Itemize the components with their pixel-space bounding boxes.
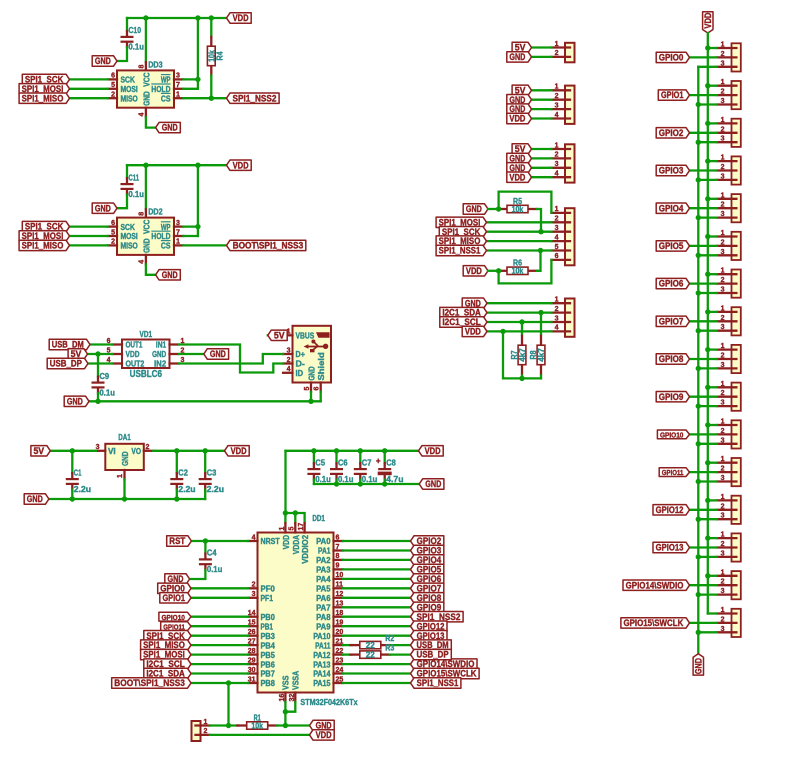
svg-text:2: 2 xyxy=(555,93,559,100)
svg-text:PA12: PA12 xyxy=(313,651,331,660)
svg-text:1: 1 xyxy=(721,343,725,350)
svg-text:VO: VO xyxy=(131,447,141,456)
svg-text:PF0: PF0 xyxy=(261,585,276,594)
svg-text:6: 6 xyxy=(111,73,115,80)
svg-text:DD1: DD1 xyxy=(312,514,325,523)
svg-text:3: 3 xyxy=(555,102,559,109)
svg-text:1: 1 xyxy=(279,527,286,531)
svg-text:0.1u: 0.1u xyxy=(129,43,144,52)
svg-text:22: 22 xyxy=(366,650,376,659)
svg-text:2: 2 xyxy=(721,579,725,586)
svg-text:R8: R8 xyxy=(529,350,538,359)
svg-text:3: 3 xyxy=(555,161,559,168)
svg-text:GND: GND xyxy=(95,203,111,213)
svg-text:VBUS: VBUS xyxy=(296,330,315,340)
svg-text:0.1u: 0.1u xyxy=(315,475,330,484)
svg-text:GND: GND xyxy=(162,123,178,133)
svg-text:PA6: PA6 xyxy=(316,594,331,603)
svg-text:SPI1_NSS1: SPI1_NSS1 xyxy=(439,246,481,256)
svg-text:VDD: VDD xyxy=(465,327,481,337)
svg-text:GND: GND xyxy=(142,238,151,252)
svg-text:0.1u: 0.1u xyxy=(362,475,377,484)
svg-text:PA4: PA4 xyxy=(316,575,331,584)
svg-text:3: 3 xyxy=(721,626,725,633)
svg-text:ID: ID xyxy=(296,368,304,378)
svg-text:PA8: PA8 xyxy=(316,613,331,622)
svg-text:PA7: PA7 xyxy=(316,604,331,613)
svg-text:6: 6 xyxy=(314,387,321,391)
svg-text:9: 9 xyxy=(336,563,340,570)
svg-text:GND: GND xyxy=(152,349,166,359)
svg-text:3: 3 xyxy=(555,315,559,322)
svg-text:1: 1 xyxy=(721,381,725,388)
svg-text:1: 1 xyxy=(721,230,725,237)
svg-text:32: 32 xyxy=(289,694,296,702)
svg-text:4: 4 xyxy=(139,113,146,117)
svg-text:2: 2 xyxy=(252,582,256,589)
svg-text:VD1: VD1 xyxy=(140,330,153,339)
svg-text:USB_DP: USB_DP xyxy=(417,650,449,660)
svg-text:GND: GND xyxy=(121,451,130,465)
svg-text:VDD: VDD xyxy=(466,266,482,276)
svg-text:GPIO0: GPIO0 xyxy=(659,53,684,63)
svg-text:C11: C11 xyxy=(129,173,140,182)
svg-text:3: 3 xyxy=(721,400,725,407)
svg-text:2: 2 xyxy=(721,277,725,284)
svg-text:3: 3 xyxy=(176,220,180,227)
svg-text:0.1u: 0.1u xyxy=(338,475,353,484)
svg-text:PB6: PB6 xyxy=(261,660,276,669)
svg-text:PA1: PA1 xyxy=(318,547,331,556)
svg-text:8: 8 xyxy=(139,65,146,69)
svg-text:C2: C2 xyxy=(178,468,188,477)
svg-text:DD2: DD2 xyxy=(148,208,163,217)
svg-text:VDD: VDD xyxy=(509,114,525,124)
svg-text:GND: GND xyxy=(27,494,43,504)
svg-text:10k: 10k xyxy=(251,721,263,730)
svg-text:Shield: Shield xyxy=(316,352,326,380)
svg-text:4k7: 4k7 xyxy=(537,348,546,362)
svg-text:PA9: PA9 xyxy=(316,622,331,631)
svg-text:SCK: SCK xyxy=(121,223,135,232)
svg-text:USBLC6: USBLC6 xyxy=(130,369,163,380)
svg-text:3: 3 xyxy=(721,437,725,444)
svg-text:4: 4 xyxy=(252,534,256,541)
svg-text:4.7u: 4.7u xyxy=(386,475,403,484)
svg-text:NRST: NRST xyxy=(261,537,280,546)
svg-text:GND: GND xyxy=(67,396,83,406)
svg-text:GPIO11: GPIO11 xyxy=(662,468,684,477)
svg-text:17: 17 xyxy=(298,523,305,531)
svg-text:4: 4 xyxy=(555,112,559,119)
svg-text:VCC: VCC xyxy=(142,72,151,86)
svg-text:SPI1_MISO: SPI1_MISO xyxy=(22,241,64,251)
svg-text:VDD: VDD xyxy=(282,535,291,549)
svg-text:R7: R7 xyxy=(510,350,519,359)
svg-text:PA15: PA15 xyxy=(313,679,331,688)
svg-text:6: 6 xyxy=(555,253,559,260)
svg-text:1: 1 xyxy=(176,239,180,246)
svg-text:22: 22 xyxy=(366,641,376,650)
svg-text:2: 2 xyxy=(204,728,208,735)
svg-text:VDD: VDD xyxy=(316,730,332,740)
svg-text:2: 2 xyxy=(555,306,559,313)
svg-text:C6: C6 xyxy=(338,458,348,467)
svg-text:4: 4 xyxy=(555,171,559,178)
svg-text:WP: WP xyxy=(161,76,171,85)
svg-text:2: 2 xyxy=(721,353,725,360)
svg-text:3: 3 xyxy=(721,249,725,256)
svg-text:1: 1 xyxy=(721,305,725,312)
svg-text:PA3: PA3 xyxy=(316,566,331,575)
svg-text:6: 6 xyxy=(336,534,340,541)
svg-text:DD3: DD3 xyxy=(148,61,163,70)
svg-text:MISO: MISO xyxy=(121,94,139,103)
svg-text:4: 4 xyxy=(555,234,559,241)
svg-text:5: 5 xyxy=(111,82,115,89)
svg-text:VDD: VDD xyxy=(509,172,525,182)
svg-text:HOLD: HOLD xyxy=(151,85,170,94)
svg-text:7: 7 xyxy=(176,229,180,236)
svg-text:3: 3 xyxy=(721,588,725,595)
svg-text:PB4: PB4 xyxy=(261,641,276,650)
svg-text:1: 1 xyxy=(721,419,725,426)
svg-text:BOOT\SPI1_NSS3: BOOT\SPI1_NSS3 xyxy=(114,678,185,688)
svg-text:6: 6 xyxy=(111,220,115,227)
svg-text:PA5: PA5 xyxy=(316,585,331,594)
svg-text:3: 3 xyxy=(96,444,100,451)
svg-text:1: 1 xyxy=(721,117,725,124)
svg-text:16: 16 xyxy=(279,694,286,702)
svg-text:2: 2 xyxy=(721,503,725,510)
svg-text:GPIO4: GPIO4 xyxy=(659,203,684,213)
svg-text:1: 1 xyxy=(721,532,725,539)
svg-text:PA10: PA10 xyxy=(313,632,331,641)
svg-text:GPIO14\SWDIO: GPIO14\SWDIO xyxy=(626,580,684,590)
svg-text:GND: GND xyxy=(466,204,482,214)
svg-text:4: 4 xyxy=(287,366,291,373)
svg-text:GPIO15\SWCLK: GPIO15\SWCLK xyxy=(623,618,683,628)
svg-text:PA14: PA14 xyxy=(313,670,331,679)
svg-text:3: 3 xyxy=(721,287,725,294)
svg-text:GPIO2: GPIO2 xyxy=(659,128,684,138)
svg-text:5: 5 xyxy=(289,527,296,531)
svg-text:3: 3 xyxy=(721,362,725,369)
svg-text:GPIO1: GPIO1 xyxy=(661,90,684,100)
svg-text:2: 2 xyxy=(721,202,725,209)
svg-text:5V: 5V xyxy=(274,330,285,340)
svg-text:PA0: PA0 xyxy=(316,537,331,546)
svg-text:GPIO5: GPIO5 xyxy=(659,241,684,251)
svg-text:3: 3 xyxy=(252,591,256,598)
svg-text:VCC: VCC xyxy=(142,220,151,234)
svg-text:3: 3 xyxy=(287,347,291,354)
svg-text:8: 8 xyxy=(139,212,146,216)
svg-text:SPI1_NSS2: SPI1_NSS2 xyxy=(233,93,277,103)
svg-text:GPIO12: GPIO12 xyxy=(656,505,684,515)
svg-text:0.1u: 0.1u xyxy=(207,565,222,574)
svg-text:RST: RST xyxy=(169,536,186,546)
svg-text:PF1: PF1 xyxy=(261,594,274,603)
svg-text:PB3: PB3 xyxy=(261,632,276,641)
svg-text:OUT1: OUT1 xyxy=(126,340,143,350)
svg-text:USB_DP: USB_DP xyxy=(50,359,82,369)
svg-text:2: 2 xyxy=(721,164,725,171)
svg-text:2: 2 xyxy=(721,466,725,473)
svg-text:MOSI: MOSI xyxy=(121,85,138,94)
svg-text:2: 2 xyxy=(111,92,115,99)
svg-text:GPIO10: GPIO10 xyxy=(162,613,185,622)
svg-text:4: 4 xyxy=(555,325,559,332)
svg-text:GPIO13: GPIO13 xyxy=(656,543,684,553)
svg-text:10k: 10k xyxy=(512,267,524,276)
svg-text:C4: C4 xyxy=(207,549,217,558)
svg-text:1: 1 xyxy=(721,268,725,275)
svg-text:PB5: PB5 xyxy=(261,651,276,660)
svg-text:2: 2 xyxy=(721,541,725,548)
svg-text:GND: GND xyxy=(162,270,178,280)
svg-text:GND: GND xyxy=(142,91,151,105)
svg-text:GPIO8: GPIO8 xyxy=(659,354,684,364)
svg-text:2.2u: 2.2u xyxy=(207,485,224,494)
svg-text:SCK: SCK xyxy=(121,76,135,85)
svg-text:1: 1 xyxy=(555,41,559,48)
svg-text:1: 1 xyxy=(721,79,725,86)
svg-text:2: 2 xyxy=(555,152,559,159)
svg-text:2: 2 xyxy=(146,444,150,451)
svg-text:VDDIO2: VDDIO2 xyxy=(301,535,310,564)
svg-text:OUT2: OUT2 xyxy=(126,359,145,369)
svg-text:MISO: MISO xyxy=(121,242,139,251)
svg-text:3: 3 xyxy=(176,73,180,80)
svg-text:PB7: PB7 xyxy=(261,670,276,679)
svg-text:VSS: VSS xyxy=(282,675,291,690)
svg-text:DA1: DA1 xyxy=(118,433,131,442)
svg-text:VDD: VDD xyxy=(233,13,249,23)
svg-text:5: 5 xyxy=(555,244,559,251)
svg-text:5: 5 xyxy=(304,387,311,391)
svg-text:VDD: VDD xyxy=(425,446,441,456)
svg-text:GPIO6: GPIO6 xyxy=(659,279,684,289)
svg-text:CS: CS xyxy=(161,94,171,103)
svg-text:GPIO7: GPIO7 xyxy=(659,316,684,326)
svg-text:2: 2 xyxy=(721,89,725,96)
svg-text:R2: R2 xyxy=(385,634,394,643)
svg-text:R1: R1 xyxy=(254,713,262,722)
svg-text:2: 2 xyxy=(721,315,725,322)
svg-text:VDD: VDD xyxy=(233,160,249,170)
svg-text:8: 8 xyxy=(336,553,340,560)
svg-text:IN2: IN2 xyxy=(154,359,166,369)
svg-text:1: 1 xyxy=(204,719,208,726)
svg-text:+: + xyxy=(376,457,381,466)
svg-text:2: 2 xyxy=(721,616,725,623)
svg-text:C10: C10 xyxy=(129,26,142,35)
svg-text:GND: GND xyxy=(95,56,111,66)
svg-text:2: 2 xyxy=(721,239,725,246)
svg-text:1: 1 xyxy=(555,206,559,213)
svg-text:1: 1 xyxy=(721,42,725,49)
svg-text:R5: R5 xyxy=(513,197,522,206)
svg-text:3: 3 xyxy=(555,225,559,232)
svg-text:SPI1_MISO: SPI1_MISO xyxy=(22,93,64,103)
svg-text:GPIO3: GPIO3 xyxy=(659,166,684,176)
svg-text:3: 3 xyxy=(721,173,725,180)
svg-text:1: 1 xyxy=(721,155,725,162)
svg-text:2: 2 xyxy=(721,51,725,58)
svg-text:GND: GND xyxy=(210,349,226,359)
svg-text:2: 2 xyxy=(721,126,725,133)
svg-text:D+: D+ xyxy=(296,349,305,359)
svg-text:WP: WP xyxy=(161,223,171,232)
svg-text:1: 1 xyxy=(555,297,559,304)
svg-text:3: 3 xyxy=(721,475,725,482)
svg-text:1: 1 xyxy=(555,142,559,149)
svg-text:10k: 10k xyxy=(512,205,524,214)
svg-text:VDD: VDD xyxy=(126,349,140,359)
svg-text:SPI1_NSS1: SPI1_NSS1 xyxy=(417,678,459,688)
svg-text:GND: GND xyxy=(509,52,525,62)
svg-text:R3: R3 xyxy=(385,643,394,652)
svg-text:R6: R6 xyxy=(513,259,522,268)
svg-text:3: 3 xyxy=(721,136,725,143)
svg-text:PB0: PB0 xyxy=(261,613,276,622)
svg-text:HOLD: HOLD xyxy=(151,232,170,241)
svg-text:C8: C8 xyxy=(386,458,396,467)
svg-text:GND: GND xyxy=(694,658,704,674)
svg-text:1: 1 xyxy=(721,456,725,463)
svg-text:1: 1 xyxy=(721,569,725,576)
svg-text:1: 1 xyxy=(721,192,725,199)
svg-text:PA13: PA13 xyxy=(313,660,331,669)
svg-text:7: 7 xyxy=(176,82,180,89)
svg-text:VI: VI xyxy=(108,447,116,456)
svg-text:3: 3 xyxy=(721,324,725,331)
svg-text:PA11: PA11 xyxy=(315,641,331,650)
svg-text:C3: C3 xyxy=(207,468,217,477)
svg-text:2: 2 xyxy=(721,428,725,435)
svg-text:3: 3 xyxy=(721,550,725,557)
svg-text:2: 2 xyxy=(721,390,725,397)
svg-text:GPIO10: GPIO10 xyxy=(660,431,683,440)
svg-text:PB8: PB8 xyxy=(261,679,276,688)
svg-text:GND: GND xyxy=(306,366,316,380)
svg-text:2.2u: 2.2u xyxy=(178,485,195,494)
svg-text:MOSI: MOSI xyxy=(121,232,138,241)
svg-text:0.1u: 0.1u xyxy=(100,388,115,397)
svg-text:4k7: 4k7 xyxy=(518,348,527,362)
svg-text:PB1: PB1 xyxy=(261,622,274,631)
svg-text:7: 7 xyxy=(336,544,340,551)
svg-text:2: 2 xyxy=(111,239,115,246)
svg-text:VDDA: VDDA xyxy=(292,535,301,554)
svg-text:5: 5 xyxy=(111,229,115,236)
svg-text:2.2u: 2.2u xyxy=(74,485,91,494)
svg-text:CS: CS xyxy=(161,242,171,251)
svg-text:2: 2 xyxy=(287,357,291,364)
svg-text:R4: R4 xyxy=(216,51,225,60)
svg-text:BOOT\SPI1_NSS3: BOOT\SPI1_NSS3 xyxy=(233,241,304,251)
svg-text:VSSA: VSSA xyxy=(292,671,301,690)
svg-text:C1: C1 xyxy=(74,468,82,477)
svg-text:3: 3 xyxy=(721,211,725,218)
svg-text:VDD: VDD xyxy=(231,446,247,456)
svg-text:3: 3 xyxy=(721,60,725,67)
svg-text:1: 1 xyxy=(721,607,725,614)
svg-text:1: 1 xyxy=(555,84,559,91)
svg-text:C9: C9 xyxy=(100,372,110,381)
svg-text:3: 3 xyxy=(721,513,725,520)
svg-text:2: 2 xyxy=(555,216,559,223)
svg-text:GPIO1: GPIO1 xyxy=(162,593,185,603)
svg-text:VDD: VDD xyxy=(703,13,713,29)
svg-text:4: 4 xyxy=(139,260,146,264)
svg-text:0.1u: 0.1u xyxy=(129,190,144,199)
svg-text:GPIO9: GPIO9 xyxy=(659,392,684,402)
svg-text:1: 1 xyxy=(721,494,725,501)
svg-text:STM32F042K6Tx: STM32F042K6Tx xyxy=(300,698,358,707)
svg-text:3: 3 xyxy=(721,98,725,105)
svg-text:GND: GND xyxy=(425,479,441,489)
svg-text:1: 1 xyxy=(176,92,180,99)
svg-text:2: 2 xyxy=(555,50,559,57)
svg-text:5V: 5V xyxy=(33,446,44,456)
svg-text:PA2: PA2 xyxy=(316,556,331,565)
svg-text:1: 1 xyxy=(117,474,124,478)
svg-text:C5: C5 xyxy=(315,458,325,467)
svg-text:IN1: IN1 xyxy=(156,340,167,350)
svg-text:C7: C7 xyxy=(362,458,372,467)
